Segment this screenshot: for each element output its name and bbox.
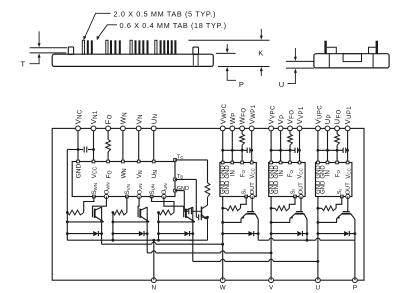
wire U1 OVN jog bbox=[138, 197, 139, 210]
end view baseplate lines bbox=[286, 60, 314, 62]
terminal V bottom bbox=[269, 278, 274, 283]
dimension T arrows bbox=[38, 31, 40, 44]
svg-text:TB: TB bbox=[177, 174, 183, 180]
svg-text:SVN: SVN bbox=[125, 184, 131, 194]
diode D4 freewheel W high bbox=[223, 233, 249, 235]
dimension P arrows bbox=[226, 44, 228, 50]
wire HVIC input common bbox=[271, 149, 295, 151]
terminal V top bbox=[297, 126, 302, 131]
wire terminal to U1 pin bbox=[77, 131, 79, 162]
svg-text:N: N bbox=[152, 285, 156, 292]
wire W phase column bbox=[222, 197, 224, 281]
end view left pin bbox=[324, 41, 326, 54]
svg-text:T: T bbox=[21, 60, 26, 69]
resistor R-GWH gate bbox=[223, 207, 227, 209]
terminal N bottom bbox=[151, 278, 156, 283]
diode D1 freewheel W low bbox=[67, 233, 93, 235]
wire phase bus V low bbox=[147, 252, 152, 254]
resistor R-TH thermal bbox=[205, 183, 210, 197]
wire N-side rail V bbox=[112, 213, 114, 241]
wire terminal to U1 pin bbox=[122, 131, 124, 162]
resistor R-GVH gate bbox=[271, 207, 275, 209]
transistor Q5 IGBT V high bbox=[296, 211, 303, 213]
terminal W top bbox=[121, 126, 126, 131]
terminal V top bbox=[316, 126, 321, 131]
transistor Q4 IGBT W high bbox=[247, 211, 254, 213]
svg-text:VCC: VCC bbox=[91, 166, 99, 178]
diode D5 freewheel V high bbox=[271, 233, 297, 235]
svg-text:0.6 X 0.4 MM TAB (18 TYP.): 0.6 X 0.4 MM TAB (18 TYP.) bbox=[120, 21, 227, 30]
wire C1 to ground rail bbox=[66, 150, 68, 213]
svg-text:U: U bbox=[316, 285, 320, 292]
svg-text:GND: GND bbox=[225, 180, 231, 194]
U1 pin TB wire bbox=[174, 178, 177, 181]
terminal U top bbox=[325, 126, 330, 131]
package body side view bbox=[52, 54, 213, 66]
wire V phase column bbox=[270, 197, 272, 281]
svg-text:FO: FO bbox=[240, 170, 246, 178]
wire U1 SWN jog bbox=[84, 197, 94, 213]
terminal V top bbox=[136, 126, 141, 131]
wire N column bbox=[153, 240, 155, 280]
capacitor C3 bootstrap bbox=[294, 148, 296, 153]
op-amp U3 HVIC V block bbox=[269, 163, 305, 197]
transistor Q2 IGBT V low bbox=[137, 209, 139, 217]
wire emitter W low bbox=[67, 221, 103, 223]
wire U1 SVN jog bbox=[126, 197, 128, 213]
svg-text:OVN: OVN bbox=[137, 184, 143, 195]
resistor R-GVL gate bbox=[113, 210, 127, 215]
svg-text:P: P bbox=[353, 285, 357, 292]
resistor R-GWL gate bbox=[67, 210, 83, 215]
U1 bottom pin bbox=[150, 195, 153, 198]
end view center recess bbox=[343, 54, 361, 62]
wire collector U low column bbox=[192, 207, 194, 261]
svg-text:GND: GND bbox=[75, 164, 82, 179]
resistor R-WFO bbox=[240, 134, 245, 145]
svg-text:SWN: SWN bbox=[92, 183, 98, 194]
terminal U bottom bbox=[316, 278, 321, 283]
wire thermal to N rail bbox=[190, 239, 208, 241]
terminal V top bbox=[91, 126, 96, 131]
svg-text:SI: SI bbox=[337, 189, 343, 194]
transistor Q6 IGBT U high bbox=[343, 211, 350, 213]
terminal W top bbox=[230, 126, 235, 131]
terminal V top bbox=[76, 126, 81, 131]
right wide tab bbox=[193, 47, 199, 54]
wires terminals to U2 bbox=[222, 131, 224, 163]
U1 bottom pin bbox=[162, 194, 166, 198]
op-amp U1 LVIC block bbox=[72, 162, 175, 197]
wires terminals to U3 bbox=[270, 131, 272, 163]
wire HVIC input common bbox=[318, 149, 343, 151]
wire collector W low column bbox=[101, 207, 103, 244]
leader line to wide tab bbox=[84, 13, 110, 38]
diode D6 freewheel U high bbox=[318, 233, 344, 235]
svg-text:VN: VN bbox=[136, 170, 144, 178]
svg-text:IN: IN bbox=[326, 170, 332, 176]
U1 bottom pin bbox=[137, 194, 141, 198]
wire collector W high to P rail bbox=[257, 219, 259, 240]
wire phase bus W low bbox=[102, 243, 152, 245]
wire terminal to U1 pin bbox=[107, 131, 109, 140]
end view right pin bbox=[376, 41, 378, 54]
wire emitter V low bbox=[113, 221, 149, 223]
wire collector V high to P rail bbox=[306, 219, 308, 240]
wire U phase column bbox=[317, 197, 319, 281]
svg-text:OUT: OUT bbox=[346, 182, 352, 195]
wire phase bus U low bbox=[193, 260, 221, 262]
wire U1 SUN jog bbox=[152, 197, 174, 213]
end view body bbox=[314, 54, 389, 68]
svg-text:2.0 X 0.5 MM TAB (5 TYP.): 2.0 X 0.5 MM TAB (5 TYP.) bbox=[114, 9, 217, 18]
U1 bottom pin bbox=[93, 195, 96, 198]
diode D2 freewheel V low bbox=[113, 233, 139, 235]
wire P column bbox=[354, 240, 356, 280]
dimension K arrows bbox=[260, 29, 262, 37]
svg-text:OUT: OUT bbox=[250, 182, 256, 195]
baseplate edge lines bbox=[30, 47, 67, 49]
wire emitter U low bbox=[159, 221, 195, 223]
terminal F top bbox=[106, 126, 111, 131]
terminal V top bbox=[269, 126, 274, 131]
transistor Q3 IGBT U low bbox=[183, 209, 185, 217]
diode D3 freewheel U low bbox=[159, 233, 185, 235]
terminal V top bbox=[220, 126, 225, 131]
wire N-side rail U bbox=[158, 213, 160, 241]
wire HVIC input common bbox=[223, 149, 247, 151]
terminal V top bbox=[288, 126, 293, 131]
svg-text:GND: GND bbox=[274, 180, 280, 194]
resistor R-FO bbox=[106, 140, 111, 153]
wire collector V low column bbox=[146, 207, 148, 253]
resistor R-UFO bbox=[335, 134, 340, 145]
svg-text:W: W bbox=[220, 285, 226, 292]
terminal tab pins row bbox=[82, 40, 84, 54]
terminal W top bbox=[240, 126, 245, 131]
leader line to narrow tab bbox=[97, 25, 117, 39]
svg-text:U: U bbox=[279, 80, 284, 89]
svg-text:VCC: VCC bbox=[346, 168, 352, 178]
svg-text:SUN: SUN bbox=[150, 184, 156, 194]
wire U2 OUT to gate bbox=[251, 197, 253, 212]
U1 pin TC wire bbox=[174, 159, 177, 162]
svg-text:P: P bbox=[239, 80, 244, 89]
wire P bus bbox=[258, 239, 269, 241]
terminal U top bbox=[151, 126, 156, 131]
svg-text:FO: FO bbox=[288, 170, 294, 178]
body-top extension line bbox=[216, 52, 236, 54]
capacitor C4 bootstrap bbox=[342, 148, 344, 153]
svg-text:VCC: VCC bbox=[298, 168, 304, 178]
svg-text:SI: SI bbox=[290, 189, 296, 194]
wire U4 OUT to gate bbox=[347, 197, 349, 212]
transistor Q7 thermal sense bbox=[201, 207, 203, 218]
body-bottom extension line bbox=[218, 66, 270, 68]
capacitor C-GND bbox=[196, 216, 198, 218]
wire terminal to U1 pin bbox=[153, 131, 155, 162]
transistor Q1 IGBT W low bbox=[92, 209, 94, 217]
terminal P bottom bbox=[353, 278, 358, 283]
dimension U arrows bbox=[294, 48, 296, 58]
terminal U top bbox=[335, 126, 340, 131]
svg-text:OUT: OUT bbox=[299, 182, 305, 195]
svg-text:GND: GND bbox=[177, 186, 189, 192]
op-amp U2 HVIC W block bbox=[220, 163, 256, 197]
svg-text:FO: FO bbox=[335, 170, 341, 178]
svg-text:WN: WN bbox=[120, 168, 128, 178]
svg-text:GND: GND bbox=[321, 180, 327, 194]
wire terminal to U1 pin bbox=[138, 131, 140, 162]
wire U4 SI to gate resistor bbox=[336, 197, 342, 209]
wire N-side rail W bbox=[66, 213, 68, 241]
node TC rail bbox=[207, 160, 209, 183]
U1 bottom pin bbox=[104, 194, 108, 198]
terminal V top bbox=[249, 126, 254, 131]
pin-top dimension line bbox=[188, 39, 269, 41]
svg-text:FO: FO bbox=[106, 170, 114, 178]
terminal V top bbox=[345, 126, 350, 131]
wire N bus bbox=[67, 239, 193, 241]
svg-text:IN: IN bbox=[279, 170, 285, 176]
wire U1 OUN jog bbox=[164, 197, 184, 210]
terminal V top bbox=[278, 126, 283, 131]
wire U1 OWN jog bbox=[93, 197, 107, 210]
svg-text:TC: TC bbox=[177, 154, 183, 160]
wire U3 SI to gate resistor bbox=[289, 197, 295, 209]
module outline box bbox=[52, 128, 364, 280]
svg-text:OWN: OWN bbox=[105, 182, 111, 194]
capacitor C-TB bbox=[184, 210, 188, 212]
terminal W bottom bbox=[220, 278, 225, 283]
resistor R-GUL gate bbox=[159, 210, 175, 215]
svg-text:VCC: VCC bbox=[250, 168, 256, 178]
wire terminal to U1 pin bbox=[93, 131, 95, 162]
wire U2 SI to gate resistor bbox=[241, 197, 247, 209]
left mounting tab bbox=[68, 47, 73, 55]
capacitor C1 supply bbox=[67, 149, 83, 151]
op-amp U4 HVIC U block bbox=[316, 163, 352, 197]
svg-text:IN: IN bbox=[231, 170, 237, 176]
resistor R-VFO bbox=[288, 134, 293, 145]
resistor R-GUH gate bbox=[318, 207, 322, 209]
wire U3 OUT to gate bbox=[300, 197, 302, 212]
U1 bottom pin bbox=[126, 195, 129, 198]
svg-text:K: K bbox=[258, 48, 263, 57]
svg-text:SI: SI bbox=[242, 189, 248, 194]
capacitor C2 bootstrap bbox=[246, 148, 248, 153]
wires terminals to U4 bbox=[317, 131, 319, 163]
svg-text:UN: UN bbox=[151, 170, 159, 179]
U1 pin GND wire bbox=[174, 189, 177, 192]
wire collector U high to P rail bbox=[354, 219, 356, 240]
svg-text:OUN: OUN bbox=[162, 183, 168, 194]
end view inner verticals bbox=[328, 54, 330, 68]
